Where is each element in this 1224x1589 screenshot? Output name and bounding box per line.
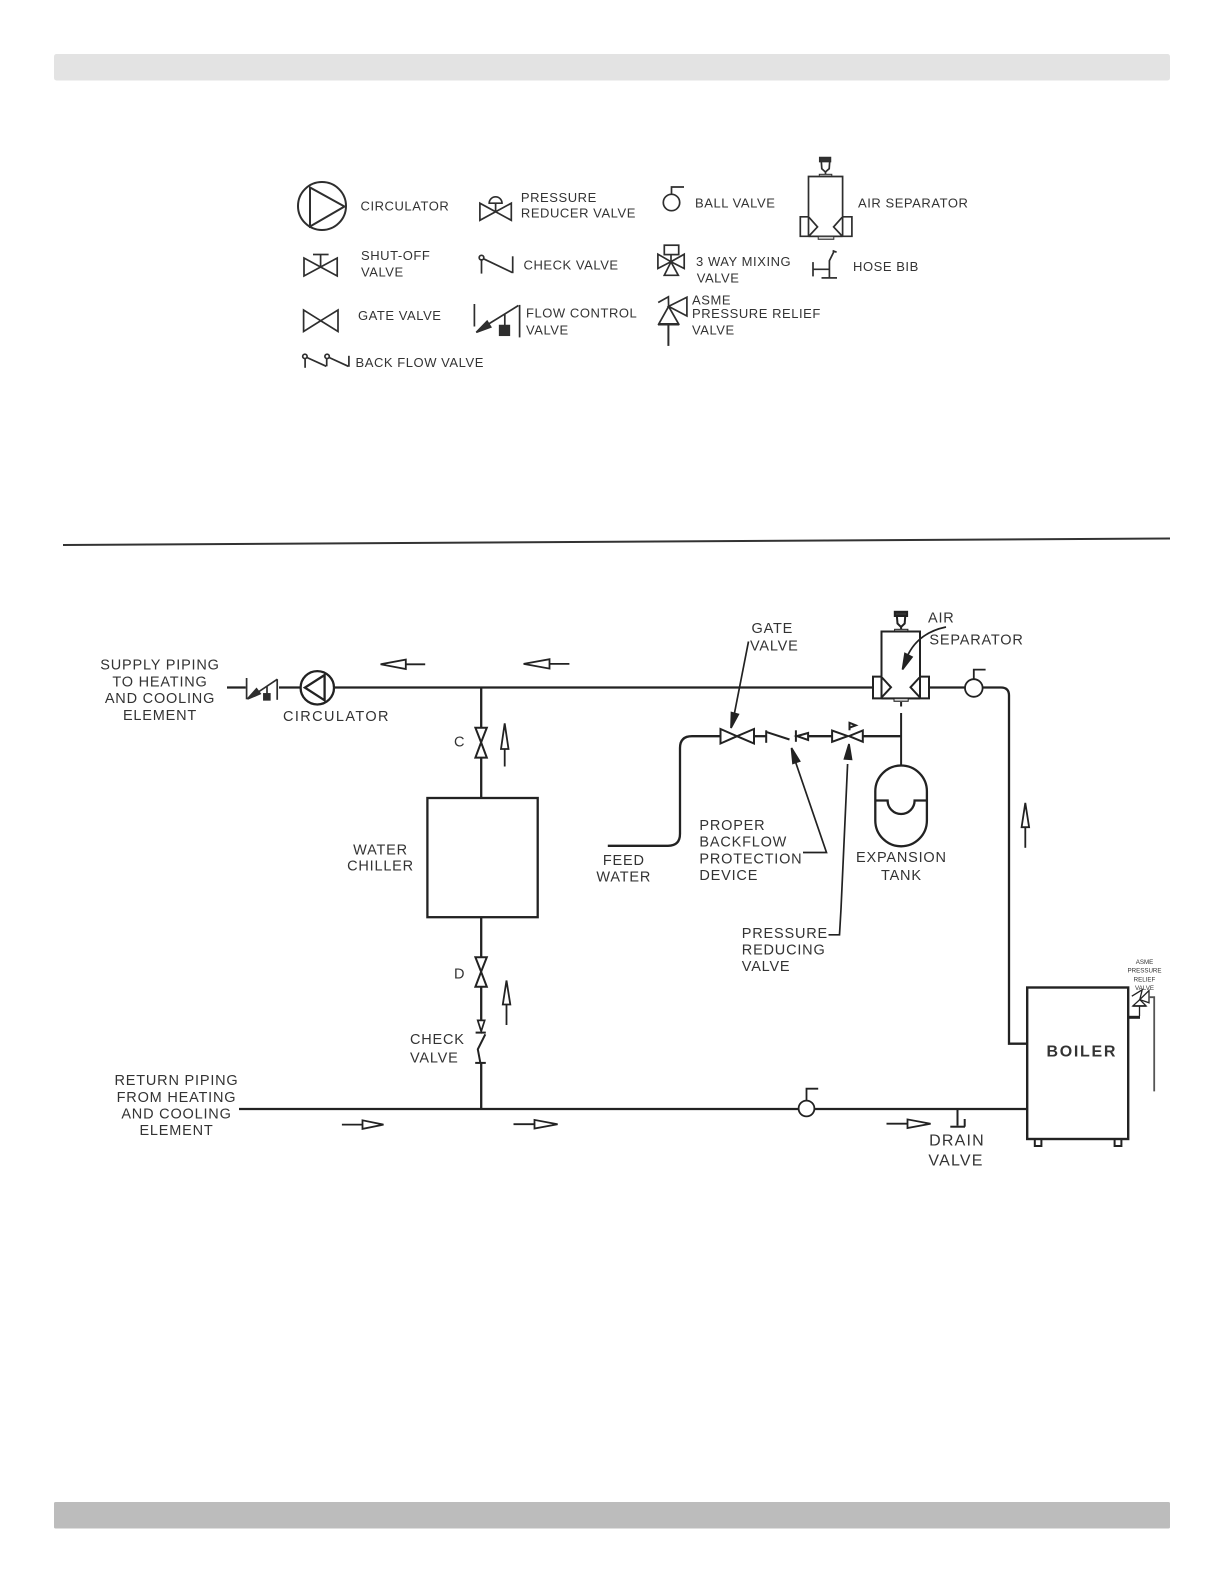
svg-text:FEED: FEED xyxy=(603,853,645,869)
flow control valve symbol (legend) xyxy=(474,304,519,337)
wire feed line (PRV to junction) xyxy=(863,735,901,737)
check valve symbol (legend) xyxy=(479,255,513,273)
svg-text:AND COOLING: AND COOLING xyxy=(121,1106,231,1122)
leader arrow to gate valve xyxy=(731,642,749,729)
leader arrow to backflow device xyxy=(792,748,827,853)
svg-text:SUPPLY PIPING: SUPPLY PIPING xyxy=(100,657,219,673)
wire chiller branch (check valve to return) xyxy=(480,1063,482,1110)
svg-text:VALVE: VALVE xyxy=(750,639,799,655)
label RETURN PIPING FROM HEATING AND COOLING ELEMENT xyxy=(115,1073,239,1139)
svg-text:HOSE BIB: HOSE BIB xyxy=(853,259,919,274)
svg-text:GATE: GATE xyxy=(752,621,794,637)
air separator symbol (legend) xyxy=(800,158,852,240)
label DRAIN VALVE xyxy=(928,1133,985,1170)
svg-text:ELEMENT: ELEMENT xyxy=(139,1123,213,1139)
label FEED WATER xyxy=(596,853,651,886)
svg-text:VALVE: VALVE xyxy=(410,1050,459,1066)
svg-text:CHILLER: CHILLER xyxy=(347,859,414,875)
svg-text:PRESSURE RELIEF: PRESSURE RELIEF xyxy=(692,306,821,321)
svg-text:REDUCING: REDUCING xyxy=(742,942,826,958)
relief valve discharge pipe xyxy=(1149,997,1154,1091)
wire supply pipe (ball valve to right drop) xyxy=(983,688,1027,1044)
svg-text:VALVE: VALVE xyxy=(697,270,740,285)
back flow valve symbol (legend) xyxy=(303,354,349,368)
svg-text:CHECK: CHECK xyxy=(410,1032,465,1048)
svg-text:PROTECTION: PROTECTION xyxy=(699,851,802,867)
svg-text:VALVE: VALVE xyxy=(526,322,569,337)
flow arrow left 2 (supply) xyxy=(524,659,570,668)
svg-text:RETURN PIPING: RETURN PIPING xyxy=(115,1073,239,1089)
label EXPANSION TANK xyxy=(856,850,947,884)
svg-text:ASME: ASME xyxy=(1136,959,1154,966)
wire chiller branch (valve C to chiller) xyxy=(480,758,482,798)
svg-text:VALVE: VALVE xyxy=(928,1152,983,1169)
flow control valve (supply line) xyxy=(247,678,278,700)
top header bar xyxy=(54,54,1170,81)
wire air separator stem (dashed) xyxy=(900,702,902,707)
svg-text:AIR SEPARATOR: AIR SEPARATOR xyxy=(858,195,968,210)
flow arrow left 1 (supply) xyxy=(381,660,426,669)
shut-off valve symbol (legend) xyxy=(304,255,337,277)
valve D (hourglass) xyxy=(475,957,486,987)
svg-text:TANK: TANK xyxy=(881,868,922,884)
boiler foot right xyxy=(1115,1139,1122,1146)
pressure reducer valve symbol (legend) xyxy=(480,197,511,221)
label WATER CHILLER xyxy=(347,843,414,875)
expansion tank xyxy=(875,766,927,847)
label ASME PRESSURE RELIEF VALVE (boiler) xyxy=(1127,959,1161,992)
boiler foot left xyxy=(1035,1139,1042,1146)
check valve (chiller branch) xyxy=(475,1033,486,1063)
wire return pipe (ball valve to boiler) xyxy=(814,1108,1027,1110)
flow arrow right 3 (return, near drain) xyxy=(887,1119,931,1128)
relief valve connection to boiler xyxy=(1128,1016,1140,1019)
hose bib symbol (legend) xyxy=(813,251,837,278)
svg-text:EXPANSION: EXPANSION xyxy=(856,850,947,866)
svg-text:AIR: AIR xyxy=(928,611,955,627)
svg-text:VALVE: VALVE xyxy=(742,959,791,975)
wire chiller branch (chiller to valve D) xyxy=(480,917,482,957)
boiler box xyxy=(1027,988,1128,1140)
svg-text:BACKFLOW: BACKFLOW xyxy=(699,835,787,851)
air separator (diagram) xyxy=(873,612,929,702)
svg-text:REDUCER VALVE: REDUCER VALVE xyxy=(521,205,636,220)
svg-text:VALVE: VALVE xyxy=(361,265,404,280)
flow arrow up (near valve C) xyxy=(501,723,509,766)
backflow protection device (two check valves) xyxy=(766,730,808,743)
wire feed line (gate valve to backflow device) xyxy=(754,735,766,737)
drain valve symbol xyxy=(950,1109,965,1127)
circulator symbol (legend) xyxy=(298,182,346,230)
wire return pipe (text to ball valve) xyxy=(239,1108,798,1110)
bottom footer bar xyxy=(54,1502,1170,1529)
svg-text:PRESSURE: PRESSURE xyxy=(521,190,597,205)
svg-text:DRAIN: DRAIN xyxy=(929,1133,985,1150)
ASME pressure relief valve symbol (boiler) xyxy=(1132,990,1149,1016)
svg-text:WATER: WATER xyxy=(353,843,408,859)
svg-text:VALVE: VALVE xyxy=(692,322,735,337)
svg-text:FLOW CONTROL: FLOW CONTROL xyxy=(526,305,637,320)
gate valve (feed line) xyxy=(721,729,755,744)
svg-text:FROM HEATING: FROM HEATING xyxy=(117,1090,237,1106)
valve C (hourglass) xyxy=(475,728,486,758)
flow arrow right 2 (return) xyxy=(514,1120,558,1129)
wire supply pipe (text to flow control valve) xyxy=(227,686,246,688)
wire chiller branch (valve D to check valve) xyxy=(480,987,482,1021)
wire air separator stem to feed junction and tank xyxy=(900,713,902,766)
svg-text:BALL VALVE: BALL VALVE xyxy=(695,195,775,210)
svg-text:PRESSURE: PRESSURE xyxy=(742,926,828,942)
ball valve (return line) xyxy=(799,1089,819,1117)
svg-text:D: D xyxy=(454,967,465,983)
svg-text:PROPER: PROPER xyxy=(699,818,765,834)
leader arrow to pressure reducing valve xyxy=(829,744,852,935)
flow arrow up (right drop) xyxy=(1022,803,1030,848)
circulator (diagram) xyxy=(301,671,334,704)
ASME pressure relief valve symbol (legend) xyxy=(658,297,687,346)
svg-text:C: C xyxy=(454,735,465,751)
flow direction cone above check valve xyxy=(478,1020,485,1031)
gate valve symbol (legend) xyxy=(304,310,338,332)
wire feed water line xyxy=(608,736,720,846)
svg-text:WATER: WATER xyxy=(596,869,651,885)
svg-text:TO HEATING: TO HEATING xyxy=(112,674,207,690)
svg-text:SHUT-OFF: SHUT-OFF xyxy=(361,248,430,263)
flow arrow right 1 (return) xyxy=(342,1120,384,1129)
svg-text:BOILER: BOILER xyxy=(1047,1044,1118,1061)
label SUPPLY PIPING TO HEATING AND COOLING ELEMENT xyxy=(100,657,219,724)
svg-text:RELIEF: RELIEF xyxy=(1134,976,1156,983)
wire feed line (backflow device to PRV) xyxy=(808,735,832,737)
wire chiller branch (supply to valve C) xyxy=(480,688,482,728)
section divider line xyxy=(63,539,1170,546)
svg-text:GATE VALVE: GATE VALVE xyxy=(358,308,442,323)
svg-text:3 WAY MIXING: 3 WAY MIXING xyxy=(696,254,791,269)
ball valve (supply, right of separator) xyxy=(965,670,986,697)
svg-text:CIRCULATOR: CIRCULATOR xyxy=(283,709,390,725)
svg-text:CHECK VALVE: CHECK VALVE xyxy=(524,257,619,272)
svg-text:VALVE: VALVE xyxy=(1135,985,1154,992)
leader arrow to air separator xyxy=(903,627,947,670)
svg-text:BACK FLOW VALVE: BACK FLOW VALVE xyxy=(356,355,484,370)
svg-text:SEPARATOR: SEPARATOR xyxy=(929,633,1023,649)
svg-text:CIRCULATOR: CIRCULATOR xyxy=(361,199,450,214)
wire supply pipe (circulator to air separator) xyxy=(334,686,873,688)
3 way mixing valve symbol (legend) xyxy=(658,245,684,275)
svg-text:PRESSURE: PRESSURE xyxy=(1127,968,1161,975)
wire supply pipe (air separator to ball valve) xyxy=(929,686,965,688)
svg-text:ELEMENT: ELEMENT xyxy=(123,708,197,724)
flow arrow up (near valve D) xyxy=(503,981,511,1026)
water chiller box xyxy=(427,798,537,917)
wire supply pipe (fcv to circulator) xyxy=(279,686,301,688)
svg-text:DEVICE: DEVICE xyxy=(699,868,758,884)
pressure reducing valve (feed line) xyxy=(832,723,863,742)
ball valve symbol (legend) xyxy=(663,187,684,211)
svg-text:AND COOLING: AND COOLING xyxy=(105,691,215,707)
